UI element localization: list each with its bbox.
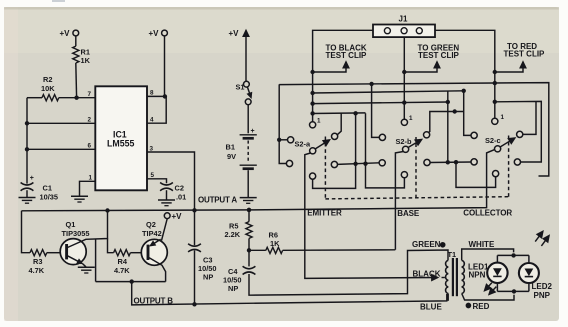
svg-text:BLUE: BLUE: [420, 302, 442, 311]
svg-text:1: 1: [501, 114, 505, 121]
svg-text:TEST CLIP: TEST CLIP: [326, 51, 368, 60]
svg-text:TEST CLIP: TEST CLIP: [418, 51, 460, 60]
svg-text:GREEN: GREEN: [412, 240, 441, 249]
svg-text:BASE: BASE: [397, 209, 420, 218]
svg-text:LM555: LM555: [107, 138, 134, 148]
svg-text:1: 1: [409, 115, 413, 122]
svg-text:1: 1: [89, 175, 93, 182]
svg-text:7: 7: [88, 91, 92, 98]
svg-text:S2-c: S2-c: [485, 136, 501, 145]
svg-text:S2-b: S2-b: [396, 137, 413, 146]
svg-text:9V: 9V: [227, 152, 236, 161]
svg-text:WHITE: WHITE: [469, 240, 495, 249]
svg-text:RED: RED: [473, 302, 490, 311]
svg-text:2.2K: 2.2K: [225, 230, 241, 239]
svg-text:C2: C2: [175, 184, 184, 193]
svg-text:Q1: Q1: [66, 220, 76, 229]
svg-text:6: 6: [88, 143, 92, 150]
svg-text:R3: R3: [33, 257, 42, 266]
svg-text:PNP: PNP: [534, 291, 551, 300]
svg-text:Q2: Q2: [146, 220, 156, 229]
svg-text:+V: +V: [229, 29, 240, 38]
svg-text:LED2: LED2: [532, 282, 553, 291]
svg-text:NPN: NPN: [469, 270, 486, 279]
svg-text:TEST CLIP: TEST CLIP: [504, 49, 546, 58]
svg-text:4: 4: [150, 117, 154, 124]
svg-text:3: 3: [150, 146, 154, 153]
svg-text:10K: 10K: [41, 84, 55, 93]
svg-text:+: +: [30, 175, 34, 182]
svg-text:R4: R4: [118, 257, 128, 266]
svg-text:1K: 1K: [81, 56, 91, 65]
svg-text:+V: +V: [60, 29, 71, 38]
svg-text:S1: S1: [236, 83, 245, 92]
svg-text:+V: +V: [172, 212, 183, 221]
svg-text:COLLECTOR: COLLECTOR: [463, 209, 512, 218]
svg-text:1: 1: [317, 118, 321, 125]
svg-text:8: 8: [150, 90, 154, 97]
svg-text:.01: .01: [176, 192, 186, 201]
svg-text:OUTPUT A: OUTPUT A: [198, 195, 237, 204]
svg-text:OUTPUT B: OUTPUT B: [134, 297, 174, 306]
svg-text:+V: +V: [149, 29, 160, 38]
svg-text:1K: 1K: [270, 239, 280, 248]
svg-text:NP: NP: [228, 284, 238, 293]
svg-text:5: 5: [151, 172, 155, 179]
svg-text:10/35: 10/35: [40, 192, 59, 201]
svg-text:2: 2: [88, 117, 92, 124]
svg-text:+: +: [251, 128, 255, 135]
svg-text:R2: R2: [43, 75, 52, 84]
svg-text:4.7K: 4.7K: [114, 266, 130, 275]
svg-text:NP: NP: [203, 272, 213, 281]
svg-text:TIP42: TIP42: [142, 229, 162, 238]
svg-text:BLACK: BLACK: [413, 270, 441, 279]
svg-text:EMITTER: EMITTER: [307, 209, 342, 218]
svg-text:J1: J1: [399, 15, 408, 24]
svg-text:B1: B1: [226, 143, 235, 152]
svg-text:T1: T1: [448, 250, 457, 259]
svg-text:C1: C1: [43, 184, 52, 193]
svg-text:4.7K: 4.7K: [29, 266, 45, 275]
svg-text:TIP3055: TIP3055: [62, 229, 90, 238]
svg-text:S2-a: S2-a: [295, 139, 312, 148]
